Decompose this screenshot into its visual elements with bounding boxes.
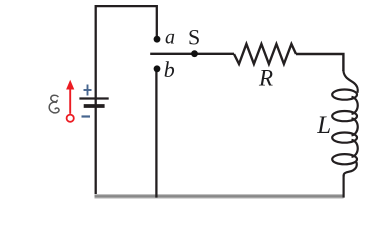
battery - sign xyxy=(82,115,91,117)
switch contact node a xyxy=(154,36,161,43)
svg-text:S: S xyxy=(188,24,200,49)
svg-text:L: L xyxy=(316,112,331,139)
svg-text:b: b xyxy=(164,57,175,82)
wire top horizontal xyxy=(96,5,157,7)
wire vertical from contact b to bottom xyxy=(155,71,157,198)
wire resistor to top-right corner xyxy=(296,54,343,71)
wire vertical to contact a xyxy=(156,5,158,36)
inductor L coil xyxy=(332,70,358,198)
resistor R zigzag xyxy=(234,44,296,64)
switch contact node b xyxy=(154,65,161,72)
wire bottom horizontal xyxy=(95,194,344,199)
switch pivot junction xyxy=(191,50,198,57)
battery EMF source: top plate (+) xyxy=(79,97,108,99)
battery + sign xyxy=(84,85,92,96)
svg-text:a: a xyxy=(165,27,175,49)
svg-text:R: R xyxy=(258,66,273,91)
battery bottom plate (-) xyxy=(84,104,105,108)
wire left vertical (battery branch) xyxy=(95,5,97,198)
switch arm S xyxy=(150,53,234,55)
EMF red direction arrow with circle xyxy=(66,80,74,122)
EMF symbol script E xyxy=(49,95,59,113)
